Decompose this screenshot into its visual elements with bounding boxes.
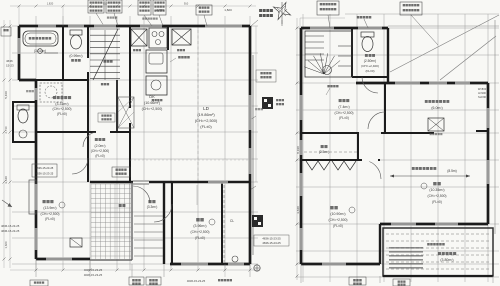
1F kitchen wall x130 [129, 26, 131, 182]
window washitsu bottom [181, 262, 208, 265]
wic X box [428, 118, 444, 131]
2F stairs/toilet wall x352 [351, 28, 353, 77]
2F window left4 [299, 228, 302, 250]
svg-text:3,640: 3,640 [296, 206, 300, 214]
1F washitsu left wall x172 [171, 182, 173, 264]
svg-text:4636-15-23-25: 4636-15-23-25 [262, 241, 281, 245]
dim vline left2 [9, 20, 11, 268]
2F window stairs top [310, 26, 334, 29]
2F toilet door arc [362, 77, 378, 93]
1F bottom wall west [36, 258, 90, 261]
QR block 2 [252, 215, 263, 227]
svg-text:(7.4m²): (7.4m²) [338, 105, 349, 109]
pantry X box [172, 29, 191, 45]
2F window left1 [299, 95, 302, 120]
svg-text:(10.66m²): (10.66m²) [144, 101, 160, 105]
1F bath bottom / washroom top wall [19, 79, 36, 82]
hall1F text [95, 138, 98, 141]
kitchen leader label [178, 56, 181, 59]
2F window south2 [435, 222, 458, 225]
tick marks bottom dim [35, 269, 252, 272]
2F window left3 [299, 173, 302, 196]
2F west room bottom wall [301, 263, 380, 266]
wic text [425, 100, 428, 103]
svg-text:(CH=+2,500): (CH=+2,500) [142, 107, 163, 111]
2F west room door arc [362, 160, 381, 179]
washbasin unit [146, 76, 167, 95]
svg-text:(FL±0): (FL±0) [432, 200, 442, 204]
2F window wic1 [395, 81, 420, 84]
hall door arc [72, 158, 88, 174]
top label box d [153, 0, 166, 15]
understairs closet wall x117 [116, 80, 118, 132]
LDK divider dashed [197, 30, 199, 180]
ceiling line text [412, 167, 415, 170]
washitsu text [196, 218, 200, 222]
svg-text:(CH=+2,500): (CH=+2,500) [190, 230, 209, 234]
corner label box [1, 27, 11, 36]
window dining [205, 24, 242, 27]
svg-text:LD: LD [203, 106, 210, 111]
kitchen small labels [152, 99, 154, 101]
dim line bottom [10, 269, 260, 271]
1F left wall [35, 80, 38, 259]
window label right wall [255, 108, 257, 110]
dim vline left1 [3, 20, 5, 268]
left margin dim ticks [3, 25, 12, 261]
2F wic stub wall [476, 130, 488, 132]
window toilet1 [68, 24, 84, 27]
stairs small label [101, 83, 103, 85]
svg-text:3,640: 3,640 [4, 176, 8, 184]
top label 2F b [400, 2, 422, 15]
1F right wall [249, 26, 252, 264]
svg-text:(FL±0): (FL±0) [95, 154, 104, 158]
svg-text:(10.35m²): (10.35m²) [429, 188, 444, 192]
svg-text:(FL±0): (FL±0) [339, 116, 349, 120]
svg-text:(8.5m): (8.5m) [447, 169, 457, 173]
1F washitsu right wall x222 [221, 182, 223, 264]
leaders top [96, 13, 104, 26]
closet pole washitsu [223, 185, 225, 262]
2F window west bottom [322, 262, 346, 265]
2F window south1 [391, 222, 416, 225]
washstand2 [19, 130, 27, 138]
window wall y182 east [208, 180, 228, 183]
svg-text:(19.86m²): (19.86m²) [197, 112, 215, 117]
top label box a [88, 0, 104, 13]
2F hall-bedroom door arc [368, 112, 385, 129]
washer dashed box [40, 83, 62, 102]
2F hall text [339, 99, 342, 102]
svg-text:4636: 4636 [6, 59, 13, 63]
svg-text:4636-15-23-25: 4636-15-23-25 [1, 224, 20, 228]
washitsu door arc [154, 204, 172, 222]
2F wall x385 [384, 83, 386, 133]
dim vline 2F left [296, 18, 298, 280]
window living bottom [46, 257, 72, 260]
hall boxed label [112, 167, 130, 177]
ceiling dim line [390, 175, 470, 177]
left margin arrow [2, 200, 12, 207]
fridge X box [131, 29, 147, 46]
site boundary line [252, 55, 254, 255]
bottom small left [30, 280, 48, 286]
svg-text:(FL±0): (FL±0) [57, 112, 67, 116]
window kitchen [140, 24, 162, 27]
window ldk right2 [248, 148, 251, 174]
bottom box 1 [129, 277, 144, 285]
2F top wall [301, 27, 388, 30]
2F toilet text [365, 54, 368, 57]
svg-text:(2.0m²): (2.0m²) [95, 144, 106, 148]
2F south wall [380, 223, 488, 226]
svg-text:(CH=+2,500): (CH=+2,500) [328, 218, 347, 222]
window label left wall [26, 90, 28, 92]
toilet2 tank [17, 105, 29, 110]
washitsu tatami line [196, 185, 198, 205]
svg-text:4636-15-23-25: 4636-15-23-25 [84, 273, 103, 277]
bottom extra guide verticals [18, 6, 20, 26]
svg-text:(3.31m²): (3.31m²) [55, 102, 68, 106]
svg-text:(CH=+2,500): (CH=+2,500) [91, 149, 109, 153]
circle cross corner [254, 265, 260, 271]
2F window wic2 [429, 81, 447, 84]
washroom door arc [83, 132, 98, 147]
2F hall bottom y133 [301, 132, 359, 134]
1F bath left wall [18, 26, 21, 80]
bath drain [38, 49, 43, 54]
svg-text:(CH=+2,400): (CH=+2,400) [361, 64, 379, 68]
svg-text:2,730: 2,730 [156, 8, 164, 12]
svg-text:910: 910 [103, 2, 108, 6]
svg-text:4636-15-23-25: 4636-15-23-25 [262, 237, 281, 241]
QR text [276, 99, 278, 101]
stove [149, 28, 167, 48]
closet bifold doors [306, 161, 330, 170]
svg-text:DK: DK [149, 94, 155, 99]
opening genkan [133, 180, 149, 185]
1F porch outline [90, 259, 132, 261]
genkan text [148, 200, 151, 203]
eave line right [494, 20, 496, 234]
2F stairs box [305, 31, 352, 77]
toilet1 tank [70, 30, 82, 35]
top extra smudges [142, 18, 144, 20]
2F window toilet top [358, 26, 382, 29]
bottom box 2 [146, 277, 161, 285]
porch label [119, 204, 122, 207]
2F window wic3 [455, 81, 470, 84]
nando text [321, 145, 324, 148]
svg-text:(13.9m²): (13.9m²) [43, 206, 56, 210]
svg-text:4636-15-23-25: 4636-15-23-25 [84, 268, 103, 272]
svg-text:CL: CL [230, 219, 234, 223]
2F dim ticks [296, 27, 299, 278]
bathtub [23, 31, 58, 46]
1F wall bath/toilet x63 [62, 26, 64, 80]
balcony hook text [427, 243, 430, 246]
genkan door arc [133, 186, 150, 203]
svg-text:(3.80m²): (3.80m²) [440, 258, 453, 262]
svg-text:4636-15-23-25: 4636-15-23-25 [1, 229, 20, 233]
understairs closet X hatch [118, 97, 134, 128]
window ldk right1 [248, 95, 251, 130]
balcony bottom wall [383, 275, 493, 277]
svg-text:H=900: H=900 [478, 91, 486, 95]
1F wall x88 [87, 26, 89, 182]
svg-text:SH=90: SH=90 [478, 95, 487, 99]
svg-text:(FL±0): (FL±0) [333, 224, 343, 228]
star pole [281, 20, 283, 26]
2F closet pole dashes [304, 151, 357, 153]
2F window left2 [299, 140, 302, 155]
grid left plan [12, 16, 258, 270]
1F WC2 protrusion [13, 102, 36, 142]
dim line top [10, 5, 256, 7]
boundary boxed label [254, 235, 289, 246]
2F window right1 [486, 108, 489, 128]
1F washroom top y80 [19, 79, 88, 81]
1F washroom bottom y132 [36, 131, 130, 133]
toilet2 bowl [18, 109, 28, 123]
stairs treads [90, 29, 120, 79]
window washroom left [34, 88, 37, 100]
2F bedroom text [433, 182, 436, 185]
bath text [29, 37, 32, 40]
svg-text:4636-15-23-25: 4636-15-23-25 [36, 166, 54, 170]
svg-text:910: 910 [184, 2, 189, 6]
QR block 1 [262, 97, 273, 109]
svg-text:(FL±0): (FL±0) [365, 69, 374, 73]
svg-text:15-23: 15-23 [6, 64, 14, 68]
1F bottom wall east [170, 263, 250, 266]
window cl bottom [228, 262, 244, 265]
balcony small texts [389, 247, 423, 269]
1F top wall [19, 25, 250, 28]
svg-text:(CH=+2,500): (CH=+2,500) [52, 107, 71, 111]
svg-text:(FL±0): (FL±0) [200, 124, 212, 129]
2F nando bottom y160 [301, 159, 380, 161]
roof diagonal 1 [390, 15, 499, 72]
bottom box 2F b [393, 279, 410, 286]
living text [43, 200, 46, 203]
svg-text:1,820: 1,820 [4, 241, 8, 248]
label near fridge [177, 49, 179, 51]
svg-text:(CH=+2,500): (CH=+2,500) [334, 111, 353, 115]
sink [146, 50, 167, 73]
balcony dashes [386, 234, 490, 269]
toilet 2F bowl [362, 37, 373, 52]
circle symbol bottom [232, 256, 238, 262]
2F west room text [330, 206, 333, 209]
svg-text:5,460: 5,460 [4, 91, 8, 99]
2F toilet bottom y77 [352, 76, 388, 78]
mid small label stairs [104, 60, 107, 63]
balcony text [438, 252, 441, 255]
svg-text:(3.96m²): (3.96m²) [193, 224, 206, 228]
door gap washroom [96, 131, 110, 134]
svg-text:4636-15-23-25: 4636-15-23-25 [36, 172, 54, 176]
bay window living [29, 180, 36, 214]
understairs boxed label [98, 113, 115, 122]
1F wall y182 [90, 181, 250, 183]
genkan steps [134, 216, 163, 256]
window bath left wall [17, 38, 20, 54]
svg-text:8,190: 8,190 [296, 146, 300, 154]
wic box small text [430, 133, 432, 135]
window living left2 [34, 228, 37, 250]
door gap kitchen [129, 108, 132, 123]
svg-text:1,820: 1,820 [224, 8, 232, 12]
svg-text:(0.99m²): (0.99m²) [69, 54, 82, 58]
top label box b [106, 0, 122, 13]
stairs up line [104, 30, 106, 80]
window bath [38, 24, 56, 27]
door gap toilet1 [87, 58, 90, 72]
2F nando right x358 [357, 133, 359, 160]
svg-text:(FL±0): (FL±0) [195, 236, 205, 240]
svg-text:2,730: 2,730 [4, 126, 8, 133]
right wall dim chain [255, 26, 257, 182]
2F window right2 [486, 160, 489, 184]
LDK dashed line [130, 159, 250, 161]
svg-text:(3.31m²): (3.31m²) [34, 49, 46, 53]
bath door [44, 52, 58, 54]
svg-text:(CH=+2,500): (CH=+2,500) [195, 118, 218, 123]
svg-text:(2.50m²): (2.50m²) [364, 59, 376, 63]
top label 2F a [317, 1, 339, 15]
1F pantry wall x168 [167, 26, 169, 50]
2F left wall [300, 28, 303, 264]
stairs diagonal [93, 29, 118, 80]
2F wall y83 [356, 82, 488, 85]
tick marks top dim [18, 5, 252, 8]
extension lines bottom 1F [89, 260, 91, 277]
living boxed label [32, 164, 57, 177]
svg-text:(CH=+2,500): (CH=+2,500) [40, 212, 59, 216]
stairs circle 2F [323, 66, 332, 75]
grid right plan [296, 14, 499, 282]
1F genkan right wall x164 [163, 182, 165, 264]
svg-text:W=800: W=800 [478, 87, 487, 91]
toilet1 bowl [71, 35, 82, 49]
roof diagonal 2 [440, 36, 496, 80]
top label box e [196, 5, 212, 15]
2F wall x380 [379, 224, 381, 264]
porch tile hatch [91, 184, 131, 259]
door gap 2F nando [362, 159, 378, 162]
eave top lines [388, 25, 499, 27]
bottom box 2F [349, 277, 366, 285]
svg-text:(FL±0): (FL±0) [45, 217, 55, 221]
label right of 1F [259, 9, 262, 12]
2F right wall [487, 83, 490, 224]
boxed label right 1F mid [256, 70, 276, 82]
toilet 2F tank [361, 32, 374, 37]
top small label 2F [357, 16, 360, 19]
washroom text [53, 96, 56, 99]
svg-text:(6.0m²): (6.0m²) [431, 106, 442, 110]
svg-text:1,820: 1,820 [47, 2, 54, 6]
window living left [34, 184, 37, 210]
window stairs top [94, 24, 116, 27]
extension lines bottom 2F [300, 264, 302, 283]
label near 2F stairs [327, 85, 329, 87]
top label box c [138, 0, 151, 15]
svg-text:(10.90m²): (10.90m²) [330, 212, 345, 216]
1F porch right wall x132 [131, 182, 133, 206]
svg-text:4636-15-23-25: 4636-15-23-25 [187, 279, 206, 283]
svg-text:(3.3m²): (3.3m²) [147, 205, 158, 209]
2F wall x388 top [387, 28, 389, 83]
floor access box [70, 238, 82, 247]
north star [273, 2, 290, 19]
balcony box [383, 228, 493, 276]
svg-text:(CH=+2,500): (CH=+2,500) [427, 194, 446, 198]
